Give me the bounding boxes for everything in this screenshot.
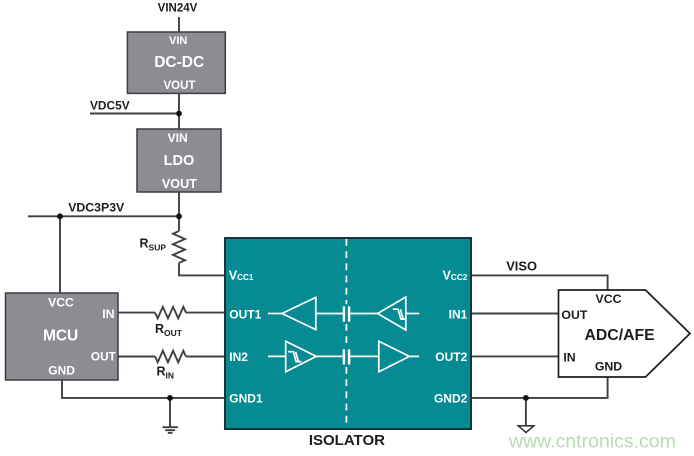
svg-text:GND1: GND1 [229,392,263,406]
svg-text:OUT1: OUT1 [229,307,261,321]
svg-text:OUT2: OUT2 [435,350,467,364]
svg-text:VCC: VCC [48,296,74,310]
svg-text:VIN: VIN [168,131,188,145]
svg-text:OUT: OUT [561,308,587,322]
svg-text:ISOLATOR: ISOLATOR [309,432,385,449]
svg-text:VOUT: VOUT [164,80,196,92]
svg-text:GND2: GND2 [434,392,468,406]
svg-text:VOUT: VOUT [162,177,197,191]
svg-text:ADC/AFE: ADC/AFE [584,327,654,344]
svg-text:IN1: IN1 [449,307,468,321]
svg-text:VIN: VIN [169,35,187,47]
svg-text:VCC: VCC [596,292,622,306]
svg-text:IN: IN [563,350,575,364]
svg-text:VDC5V: VDC5V [90,98,130,112]
svg-text:VIN24V: VIN24V [158,2,198,14]
svg-text:LDO: LDO [164,153,195,169]
svg-text:OUT: OUT [91,350,117,364]
svg-text:IN2: IN2 [229,350,248,364]
svg-text:GND: GND [48,363,75,377]
svg-text:IN: IN [102,307,114,321]
svg-text:VDC3P3V: VDC3P3V [68,201,125,215]
svg-text:www.cntronics.com: www.cntronics.com [508,431,676,453]
svg-text:VISO: VISO [506,259,537,274]
svg-text:GND: GND [595,359,622,373]
svg-text:MCU: MCU [43,327,78,344]
svg-text:DC-DC: DC-DC [154,54,204,71]
